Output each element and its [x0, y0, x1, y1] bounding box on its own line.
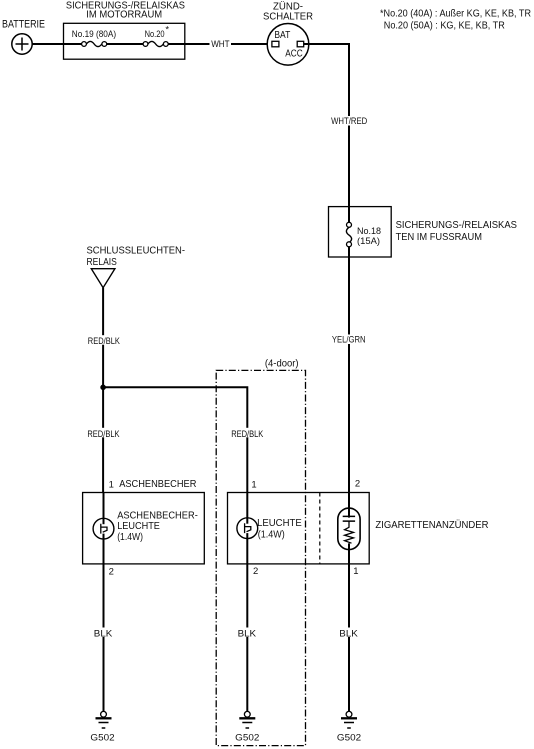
fuse/relay box (engine compartment): [64, 23, 185, 59]
svg-text:BLK: BLK: [339, 629, 358, 640]
svg-text:BLK: BLK: [94, 629, 113, 640]
wire label YEL/GRN: [330, 334, 368, 345]
wire label BLK right: [338, 628, 361, 640]
svg-text:G502: G502: [235, 732, 259, 743]
svg-text:No.19 (80A): No.19 (80A): [72, 29, 116, 40]
wire fuse box to ignition switch: [168, 43, 271, 45]
svg-text:(4-door): (4-door): [265, 358, 299, 369]
wire label RED/BLK upper: [86, 335, 122, 347]
svg-text:(15A): (15A): [357, 236, 380, 247]
wire label BLK left: [92, 628, 115, 640]
svg-text:IM MOTORRAUM: IM MOTORRAUM: [86, 8, 162, 20]
svg-text:ACC: ACC: [285, 49, 302, 60]
ground G502 left: [90, 711, 114, 743]
svg-text:1: 1: [251, 480, 256, 491]
wire junction to 4-door branch: [103, 387, 247, 492]
bulb label LEUCHTE: [257, 517, 302, 529]
fuse box title line 2: [86, 8, 162, 20]
svg-text:1: 1: [109, 480, 114, 491]
component title ASCHENBECHER: [119, 478, 197, 490]
footwell box label line 2: [396, 231, 482, 243]
ground G502 middle: [235, 711, 259, 743]
wire battery to fuse box: [32, 43, 82, 45]
svg-text:*No.20 (40A) : Außer KG, KE, K: *No.20 (40A) : Außer KG, KE, KB, TR: [380, 9, 531, 20]
bulb (ashtray light): [93, 518, 114, 539]
battery label BATTERIE: [2, 19, 45, 31]
svg-text:BATTERIE: BATTERIE: [2, 19, 45, 31]
fuse No.20 value label: [145, 25, 170, 40]
svg-text:BLK: BLK: [238, 629, 257, 640]
svg-text:RED/BLK: RED/BLK: [231, 429, 264, 440]
svg-text:SICHERUNGS-/RELAISKAS: SICHERUNGS-/RELAISKAS: [396, 219, 517, 231]
svg-text:No.20 (50A) : KG, KE, KB, TR: No.20 (50A) : KG, KE, KB, TR: [384, 20, 505, 31]
svg-text:2: 2: [355, 479, 360, 490]
pin 1 ashtray light: [109, 480, 114, 491]
svg-text:WHT/RED: WHT/RED: [331, 116, 367, 127]
wire cigarette lighter to ground G502 right: [348, 564, 350, 711]
wire label BLK middle: [236, 628, 259, 640]
fuse/relay box (footwell): [329, 207, 392, 257]
note text top right line 1: [380, 9, 531, 20]
fuse No.19 (80A): [82, 41, 107, 46]
footwell box label line 1: [396, 219, 517, 231]
battery B1: [12, 34, 32, 54]
svg-text:1: 1: [353, 566, 358, 577]
wire ignition switch ACC to fuse 18 box: [304, 44, 349, 207]
svg-text:2: 2: [253, 566, 258, 577]
wire fuse 18 to cigarette lighter: [348, 247, 350, 508]
bulb (4-door light): [237, 518, 258, 539]
wire stub into bulb: [103, 493, 105, 519]
svg-text:SCHLUSSLEUCHTEN-: SCHLUSSLEUCHTEN-: [87, 244, 186, 256]
svg-text:BAT: BAT: [274, 30, 290, 41]
wire relay to ashtray light: [102, 288, 104, 493]
internal dashed divider: [319, 493, 321, 564]
svg-text:(1.4W): (1.4W): [258, 528, 285, 540]
pin 2 ashtray light: [109, 567, 114, 578]
taillight relay title line 2: [87, 256, 117, 268]
terminal label ACC: [285, 49, 302, 60]
wire label WHT/RED: [330, 116, 370, 127]
svg-text:ASCHENBECHER: ASCHENBECHER: [119, 478, 197, 490]
fuse No.18: [346, 222, 351, 247]
svg-text:2: 2: [109, 567, 114, 578]
light + cigarette lighter box: [228, 493, 370, 564]
ignition switch (ZUND-SCHALTER): [267, 24, 309, 66]
ignition switch title line 1: [273, 0, 303, 12]
wire label RED/BLK middle: [230, 428, 266, 440]
4-door label: [265, 358, 299, 369]
wire between fuses: [107, 43, 143, 45]
taillight relay title line 1: [87, 244, 186, 256]
pin 1 cigarette lighter bottom: [353, 566, 358, 577]
wire label WHT: [210, 39, 232, 50]
terminal label BAT: [274, 30, 290, 41]
svg-text:*: *: [165, 25, 169, 36]
note text top right line 2: [384, 20, 505, 31]
svg-text:LEUCHTE: LEUCHTE: [117, 520, 160, 532]
wire stub into 4-door bulb: [246, 493, 248, 519]
fuse No.19 value label: [72, 29, 116, 40]
svg-text:ZIGARETTENANZÜNDER: ZIGARETTENANZÜNDER: [375, 519, 488, 531]
ignition switch title line 2: [263, 10, 313, 22]
pin 1 4-door light: [251, 480, 256, 491]
fuse No.20: [143, 41, 168, 46]
svg-text:G502: G502: [90, 732, 114, 743]
svg-text:RED/BLK: RED/BLK: [87, 429, 120, 440]
svg-text:TEN IM FUSSRAUM: TEN IM FUSSRAUM: [396, 231, 482, 243]
svg-text:RED/BLK: RED/BLK: [88, 336, 121, 347]
ashtray light box: [83, 493, 205, 564]
svg-text:RELAIS: RELAIS: [87, 256, 117, 268]
fuse No.18 value label: [357, 226, 381, 247]
pin 2 cigarette lighter top: [355, 479, 360, 490]
bulb label line 2: [117, 520, 160, 532]
cigarette lighter element: [338, 508, 360, 564]
svg-text:LEUCHTE: LEUCHTE: [257, 517, 302, 529]
svg-text:No.20: No.20: [145, 29, 165, 40]
4-door option dash-dot box: [216, 370, 305, 745]
bulb label (1.4W): [258, 528, 285, 540]
pin 2 4-door light bottom: [253, 566, 258, 577]
taillight relay symbol: [91, 269, 115, 288]
component label ZIGARETTENANZUNDER: [375, 519, 488, 531]
bulb label line 1: [117, 509, 198, 521]
wire stub into fuse 18: [348, 207, 350, 223]
fuse box title line 1: [66, 0, 185, 11]
wire bulb to ground G502 left: [103, 539, 105, 711]
ground G502 right: [337, 711, 361, 743]
svg-text:G502: G502: [337, 732, 361, 743]
svg-text:YEL/GRN: YEL/GRN: [332, 334, 366, 345]
junction node: [100, 385, 106, 391]
svg-text:SCHALTER: SCHALTER: [263, 10, 313, 22]
svg-text:(1.4W): (1.4W): [117, 531, 143, 543]
wire 4-door bulb to ground G502 middle: [246, 539, 248, 712]
wire label RED/BLK lower left: [86, 428, 122, 440]
svg-text:WHT: WHT: [211, 39, 229, 50]
bulb label line 3: [117, 531, 143, 543]
